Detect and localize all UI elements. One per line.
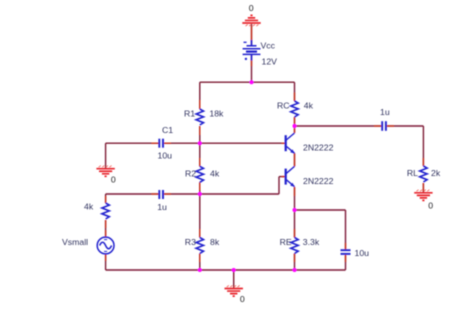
svg-text:RE: RE [280, 237, 292, 247]
wire Q1 emitter / Q2 collector stub [294, 153, 296, 166]
wire bypass cap bottom lead [345, 255, 347, 270]
wire R3 pin stubs [199, 229, 201, 238]
wire bypass cap top lead [345, 210, 347, 250]
wire 4k source resistor pin stubs [105, 196, 107, 203]
svg-text:0: 0 [249, 3, 254, 13]
svg-text:2N2222: 2N2222 [303, 176, 334, 186]
svg-text:10u: 10u [158, 150, 173, 160]
ground 0 bottom [225, 285, 243, 296]
wire battery top lead to ground [251, 24, 253, 46]
junction battery-rail [250, 80, 254, 84]
svg-text:1u: 1u [157, 202, 167, 212]
wire bypass 10u cap pin stubs [345, 243, 347, 250]
svg-text:8k: 8k [210, 237, 220, 247]
resistor R2 4k [196, 166, 203, 182]
junction R3-bottom rail [198, 268, 202, 272]
battery Vcc [243, 40, 261, 61]
svg-text:1u: 1u [380, 107, 390, 117]
ground 0 left [96, 166, 114, 177]
wire battery pin stubs [251, 26, 253, 41]
wire node A horizontal right of C1 to Q1 base [164, 142, 285, 144]
wire R2 pin stubs [199, 158, 201, 166]
resistor RE 3.3k [291, 238, 298, 254]
svg-text:R2: R2 [185, 169, 196, 179]
resistor 4k (source) [102, 203, 109, 219]
svg-text:Vsmall: Vsmall [62, 237, 88, 247]
wire Q2 base stub [282, 176, 286, 178]
svg-text:4k: 4k [84, 201, 94, 211]
wire 1u cap to RL corner [387, 125, 424, 127]
svg-text:R1: R1 [184, 108, 195, 118]
wire output 1u cap pin stubs [374, 125, 381, 127]
wire RC bottom lead to collector node [294, 117, 296, 126]
wire Q2 base step horizontal [279, 176, 285, 178]
wire left rail segment R1 top lead [199, 82, 201, 109]
wire node E to bypass cap branch [295, 209, 346, 211]
resistor R3 8k [196, 238, 203, 254]
wire RE pin stubs [294, 229, 296, 238]
resistor RC 4k [291, 101, 298, 117]
node A junction [198, 141, 202, 145]
junction ground-bottom rail [232, 268, 236, 272]
wire top rail Vcc [200, 81, 295, 83]
svg-text:4k: 4k [210, 169, 220, 179]
svg-text:2N2222: 2N2222 [303, 143, 334, 153]
wire down to RL [422, 126, 424, 166]
wire left rail R1 bottom to R2 top (node A) [199, 126, 201, 166]
wire Q2 emitter stub [294, 187, 296, 196]
junction collector output node [293, 124, 297, 128]
pin lead stubs (bright red) [106, 26, 424, 262]
wire node B horizontal left of 1u cap [106, 193, 159, 195]
node B junction [198, 192, 202, 196]
svg-text:3.3k: 3.3k [303, 237, 320, 247]
wire Q2 base step vertical [278, 177, 280, 194]
wire bottom rail [106, 269, 346, 271]
wire Q1 collector vertical [294, 126, 296, 133]
wire Q2 emitter down to node E [294, 187, 296, 238]
svg-text:18k: 18k [209, 108, 224, 118]
wire left rail R3 bottom lead [199, 254, 201, 271]
svg-text:RL: RL [407, 168, 418, 178]
svg-text:0: 0 [240, 294, 245, 304]
svg-text:Vcc: Vcc [261, 40, 276, 50]
ground 0 right [414, 190, 432, 201]
wire Vsmall 4k top lead [105, 194, 107, 203]
wire stem to left ground [105, 143, 107, 168]
source Vsmall [97, 237, 114, 254]
wire C1 pin stubs [152, 142, 159, 144]
capacitor 10u (bypass) [341, 250, 351, 254]
svg-text:12V: 12V [262, 57, 278, 67]
wire Vsmall to bottom rail [105, 254, 107, 270]
capacitor 1u (input) [159, 190, 163, 199]
capacitor C1 10u [159, 139, 163, 148]
svg-text:2k: 2k [431, 168, 441, 178]
wire Q1 base stub [282, 142, 286, 144]
wire stem to bottom ground [233, 270, 235, 288]
svg-text:0: 0 [428, 200, 433, 210]
transistor Q1 2N2222 [286, 133, 295, 153]
resistor R1 18k [196, 109, 203, 125]
svg-text:C1: C1 [162, 125, 173, 135]
svg-text:0: 0 [111, 174, 116, 184]
wire node A horizontal left of C1 [106, 142, 159, 144]
wire Vsmall pin stubs [105, 230, 107, 237]
wire RC top lead from rail [294, 82, 296, 101]
capacitor 1u (output) [382, 121, 386, 131]
wire output node to 1u cap [295, 125, 382, 127]
wire left rail R2 bottom to R3 top (node B) [199, 182, 201, 237]
junction emitter node E [293, 208, 297, 212]
wire 4k to Vsmall circle [105, 220, 107, 237]
wire R1 pin stubs [199, 100, 201, 109]
wire battery bottom lead to rail [251, 54, 253, 82]
svg-text:10u: 10u [355, 248, 370, 258]
wire RL bottom lead to ground [422, 183, 424, 192]
svg-text:RC: RC [277, 100, 290, 110]
wire RE bottom lead [294, 254, 296, 271]
ground 0 top (inverted, above Vcc) [242, 15, 260, 26]
wire RC pin stubs [294, 93, 296, 102]
wire RL pin stubs [422, 158, 424, 166]
resistor RL 2k [420, 166, 427, 182]
wire node B horizontal right of 1u cap [164, 193, 279, 195]
svg-text:4k: 4k [304, 100, 314, 110]
svg-text:R3: R3 [185, 237, 196, 247]
wire Q1 emitter to Q2 collector [294, 153, 296, 166]
wire input 1u cap pin stubs [152, 193, 159, 195]
transistor Q2 2N2222 [286, 166, 295, 186]
junction RE-bottom rail [293, 268, 297, 272]
wire Q1 collector stub [294, 128, 296, 133]
